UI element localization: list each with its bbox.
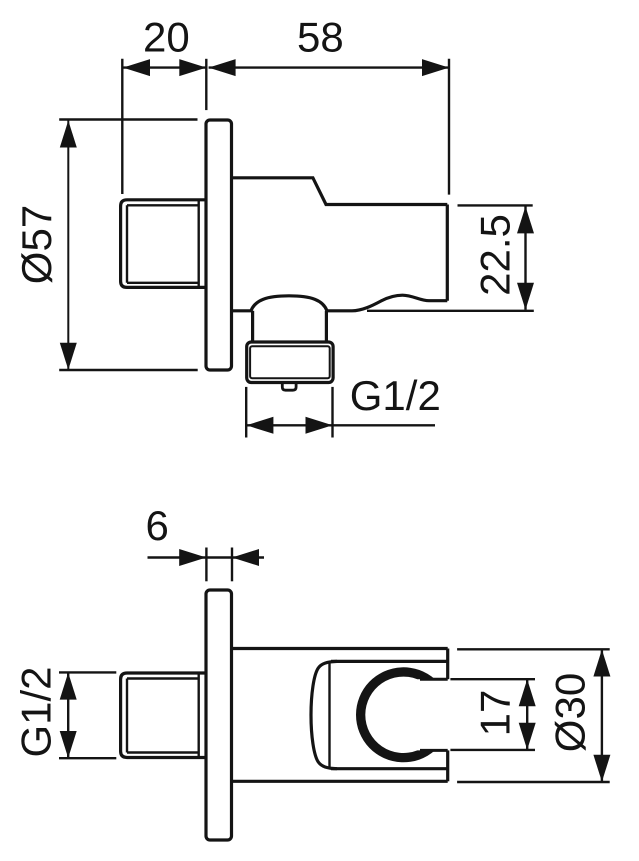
thread inner left vertical (plan) xyxy=(126,679,128,753)
dim G1/2 inlet: extension line bottom xyxy=(59,757,116,759)
body right edge upper segment xyxy=(446,649,449,680)
dim G1/2 nut: arrow right xyxy=(306,417,333,434)
dim 20: dimension line xyxy=(123,66,206,68)
dim 17: arrow down xyxy=(519,723,536,750)
valve dome xyxy=(251,296,327,311)
body bottom edge (plan) xyxy=(232,780,448,783)
svg-text:17: 17 xyxy=(472,690,519,737)
thread inner top (plan) xyxy=(127,677,199,679)
dim 58: arrow right xyxy=(422,59,449,76)
body bottom left segment xyxy=(232,309,252,312)
dim 22.5: arrow up xyxy=(517,206,534,233)
dim 6: extension line right xyxy=(231,548,233,582)
svg-text:22.5: 22.5 xyxy=(472,214,519,296)
dim D57: extension line bottom xyxy=(59,369,198,371)
dim G1/2 inlet: dimension line xyxy=(67,673,69,758)
dim D30: extension line top xyxy=(457,648,610,650)
thread inner line left vertical xyxy=(126,205,128,282)
svg-text:6: 6 xyxy=(146,502,169,549)
dim D30: dimension line xyxy=(601,650,603,782)
svg-text:Ø57: Ø57 xyxy=(13,205,60,284)
outlet nut inner xyxy=(250,346,330,378)
dim G1/2 nut: extension line left xyxy=(245,387,247,438)
wall plate (escutcheon) xyxy=(206,120,232,370)
outlet nipple xyxy=(282,382,296,391)
dim D30: extension line bottom xyxy=(457,781,610,783)
valve neck right vertical xyxy=(325,311,328,341)
valve neck left vertical xyxy=(251,311,254,341)
threaded inlet block outline xyxy=(121,200,206,288)
dim D57: dimension line xyxy=(67,121,69,370)
dim G1/2 inlet: arrow down xyxy=(60,731,77,758)
svg-text:20: 20 xyxy=(143,14,190,61)
dim 22.5: arrow down xyxy=(517,283,534,310)
svg-text:58: 58 xyxy=(297,14,344,61)
dim 6: extension line left xyxy=(205,548,207,582)
thread inner line bottom xyxy=(127,282,199,284)
dim 6: dimension line xyxy=(148,556,265,558)
holder C-ring xyxy=(356,667,435,762)
body right edge lower segment xyxy=(446,750,449,781)
threaded inlet block outline (plan) xyxy=(121,673,206,758)
dim 17: extension line bottom xyxy=(450,749,535,751)
dim 6: arrow right (points left) xyxy=(232,549,259,566)
svg-text:G1/2: G1/2 xyxy=(13,666,60,757)
holder nose edge line xyxy=(328,664,330,768)
dim G1/2 nut: extension line right xyxy=(331,387,333,438)
body right edge xyxy=(446,205,449,301)
body top edge (plan) xyxy=(232,647,448,650)
dim G1/2 inlet: arrow up xyxy=(60,673,77,700)
holder top edge xyxy=(331,660,448,663)
thread runout vertical (plan) xyxy=(197,673,199,757)
thread inner line top xyxy=(127,204,199,206)
outlet nut outer xyxy=(247,342,333,383)
dim 20: arrow left xyxy=(123,59,150,76)
dim D57: extension line top xyxy=(59,118,197,120)
dim G1/2 nut: dimension line with tail xyxy=(246,424,435,426)
dim 20: extension line left xyxy=(121,59,123,194)
holder nose arc xyxy=(311,661,337,768)
holder bottom edge xyxy=(331,767,448,770)
dim 22.5: dimension line xyxy=(524,206,526,309)
dim 22.5: extension line top xyxy=(458,204,533,206)
holder slot bottom line xyxy=(420,749,448,752)
svg-text:Ø30: Ø30 xyxy=(547,673,594,752)
dim 58: extension line right xyxy=(448,59,450,195)
dim 20/58: extension line shared xyxy=(205,59,207,110)
holder slot top line xyxy=(420,678,448,681)
dim 17: extension line top xyxy=(450,678,535,680)
dim D30: arrow down xyxy=(593,755,610,782)
dim 6: arrow left (points right) xyxy=(179,549,206,566)
thread runout vertical xyxy=(197,200,199,287)
wall plate (plan) xyxy=(206,590,232,840)
body outline top: shoulder and step xyxy=(232,178,448,205)
dim D57: arrow up xyxy=(60,121,77,148)
dim 17: arrow up xyxy=(519,679,536,706)
dim G1/2 inlet: extension line top xyxy=(59,671,116,673)
dim 58: dimension line xyxy=(209,66,449,68)
dim 17: dimension line xyxy=(526,679,528,750)
dim 20: arrow right xyxy=(179,59,206,76)
dim G1/2 nut: arrow left xyxy=(246,417,273,434)
body bottom right with holder hump xyxy=(327,295,447,311)
thread inner bottom (plan) xyxy=(127,751,199,753)
dim D57: arrow down xyxy=(60,343,77,370)
svg-text:G1/2: G1/2 xyxy=(350,372,441,419)
dim D30: arrow up xyxy=(593,650,610,677)
dim 22.5: extension line bottom xyxy=(367,310,534,312)
dim 58: arrow left xyxy=(209,59,236,76)
